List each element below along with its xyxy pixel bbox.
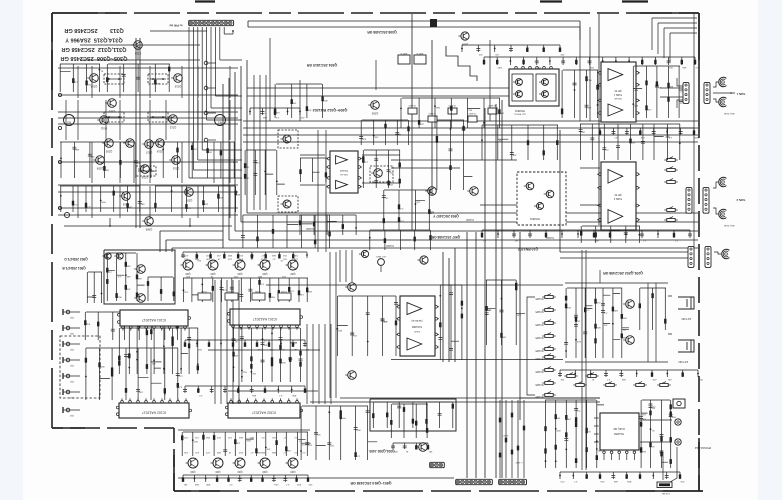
under bar1 comb [128, 367, 130, 369]
transistor Q320 [108, 99, 117, 108]
svg-text:TD62504: TD62504 [529, 217, 540, 220]
connector header to PW board [189, 20, 234, 25]
svg-text:IC201 HA12017: IC201 HA12017 [253, 317, 277, 321]
svg-text:47K: 47K [680, 480, 684, 482]
transistor Q306a [126, 139, 135, 148]
P-SW rect groups [198, 293, 211, 300]
svg-text:L-SW2: L-SW2 [515, 461, 522, 463]
svg-text:PHONO/LINE2: PHONO/LINE2 [694, 446, 711, 449]
svg-text:SWT-8: SWT-8 [400, 52, 407, 54]
mic texture [565, 350, 567, 352]
sheet border left [51, 13, 53, 428]
svg-text:M1: M1 [218, 121, 222, 125]
svg-text:RH 03: RH 03 [614, 193, 621, 196]
switch W-SW5-3 [545, 322, 553, 325]
transistor Q504 [117, 253, 123, 259]
input jack P6-410 [62, 407, 64, 413]
second vertical bundle [254, 60, 376, 252]
switch W-SW10 [660, 384, 668, 387]
svg-text:Q312: Q312 [169, 126, 176, 130]
svg-text:S-GND: S-GND [306, 227, 314, 230]
bottom drops [310, 398, 600, 478]
svg-text:HA12058: HA12058 [613, 432, 624, 435]
svg-text:47K: 47K [195, 451, 199, 453]
svg-text:W-SW6: W-SW6 [535, 395, 544, 398]
svg-text:Q318: Q318 [156, 150, 163, 154]
svg-text:Q311: Q311 [100, 127, 107, 131]
bar bundle 1 [215, 280, 331, 404]
transistor Q317 [145, 140, 154, 149]
svg-text:Q313 2SC2458 GR: Q313 2SC2458 GR [64, 27, 123, 33]
svg-text:B-SW2: B-SW2 [408, 104, 416, 106]
dolby IC [600, 413, 639, 450]
svg-text:10K: 10K [287, 449, 291, 451]
mid-left long verticals [330, 250, 352, 398]
svg-text:RH 03: RH 03 [614, 89, 621, 92]
svg-text:W-SW6: W-SW6 [535, 357, 544, 360]
svg-text:P-SW: P-SW [227, 290, 234, 292]
svg-text:Q308 2SC2458 GR: Q308 2SC2458 GR [367, 30, 397, 34]
svg-text:47K: 47K [652, 378, 656, 380]
svg-text:Q903 2SC2407 Y: Q903 2SC2407 Y [432, 214, 459, 218]
svg-text:Q60: Q60 [290, 272, 295, 276]
jack y254 [714, 252, 721, 254]
svg-text:10K: 10K [184, 451, 188, 453]
transistor Q202 [626, 336, 635, 345]
svg-text:10K: 10K [294, 254, 298, 256]
svg-text:S-GND: S-GND [386, 244, 394, 247]
transistor Q502 [137, 294, 146, 303]
transistor Q609 [260, 458, 270, 468]
transistor Q908 [145, 217, 154, 226]
transistor Q201 [626, 300, 635, 309]
svg-text:W-SW5: W-SW5 [535, 349, 544, 352]
under bar2 comb [233, 366, 235, 368]
right of U-C [632, 103, 634, 105]
transistor Q503 [105, 253, 111, 259]
transistor Q304 [461, 32, 469, 40]
svg-text:47K: 47K [87, 83, 91, 85]
transistor Q903 [428, 187, 437, 196]
svg-text:LPO 3NC1: LPO 3NC1 [375, 255, 386, 257]
page edge artifacts [195, 0, 648, 2]
switch W-SW9 [636, 384, 644, 387]
svg-text:TAPE 2: TAPE 2 [613, 197, 622, 200]
svg-text:10K: 10K [292, 102, 296, 104]
volume ladder [446, 46, 477, 81]
between bars rows [196, 343, 198, 345]
transistor Q601 [183, 260, 193, 270]
svg-text:Q60: Q60 [237, 470, 242, 474]
transistor Q608 [235, 458, 245, 468]
transistor mid t1 [348, 283, 357, 292]
switch W-SW8 [606, 384, 614, 387]
tape1 connectors [683, 82, 689, 103]
svg-text:10K: 10K [105, 168, 109, 170]
terminal circle bottom [64, 212, 69, 217]
svg-text:Q306: Q306 [371, 112, 378, 116]
svg-text:Q907 2SC2458 GR: Q907 2SC2458 GR [431, 235, 460, 239]
left rail pin circles [58, 93, 61, 96]
switch W-SW5-2 [545, 309, 553, 312]
svg-text:805 HB: 805 HB [614, 97, 622, 99]
svg-text:47K: 47K [383, 320, 387, 322]
transistor Q upper mid [420, 256, 428, 264]
switch W-SW6-1 [545, 356, 553, 359]
transistor Q318 [156, 139, 165, 148]
bottom edge connector 1 [456, 479, 493, 484]
svg-text:Q10 RN1202: Q10 RN1202 [518, 247, 538, 251]
top bus blob [430, 19, 437, 27]
switch B-SW2-4 [468, 116, 477, 122]
svg-text:S-GND: S-GND [546, 236, 554, 239]
sheet border notch horizontal [52, 427, 174, 429]
svg-text:W-SW5: W-SW5 [535, 323, 544, 326]
transistor Q602 [208, 260, 218, 270]
transistor Q501 [137, 265, 146, 274]
svg-text:47K: 47K [641, 418, 645, 420]
svg-text:Q60: Q60 [190, 470, 195, 474]
svg-text:B-SW2: B-SW2 [428, 112, 436, 114]
line-out sub box [370, 399, 456, 431]
switch B-SW3 [667, 181, 675, 184]
svg-text:10K: 10K [206, 258, 210, 260]
svg-text:Q315: Q315 [174, 85, 181, 89]
switch W-SW6-4 [545, 394, 553, 397]
tape1 wires [660, 88, 683, 97]
channel divider wires [135, 38, 137, 228]
switch W-SW5-5 [545, 348, 553, 351]
bottom rails [178, 430, 454, 478]
transistor Q305 in dashed box [370, 166, 393, 182]
svg-text:10K: 10K [252, 372, 256, 374]
transistor Q311 [100, 116, 109, 125]
dolby texture [545, 452, 547, 454]
switch B-SW4 [667, 209, 675, 212]
transistor Q312 [169, 115, 178, 124]
marks on bus verticals [499, 413, 525, 458]
svg-text:IC202 HA12017: IC202 HA12017 [252, 411, 276, 415]
input jack P6-376 [62, 373, 64, 379]
switch W-SW5-1 [545, 296, 553, 299]
switch B-SW2 [667, 169, 675, 172]
svg-text:Q304 2SC1815 GR: Q304 2SC1815 GR [306, 63, 337, 67]
svg-text:TD62504: TD62504 [514, 109, 525, 112]
bottom edge connector 2 [499, 479, 527, 484]
mid bus lines with corners [160, 60, 698, 252]
switch B-SW2-5 [488, 108, 497, 114]
jack circle mid [378, 259, 385, 266]
transistor Q315 [174, 74, 183, 83]
svg-text:10K: 10K [560, 378, 564, 380]
transistor Q309 [96, 156, 105, 165]
svg-text:M2: M2 [67, 121, 71, 125]
svg-text:Q305: Q305 [105, 150, 112, 154]
switch W-SW7 [576, 384, 584, 387]
svg-text:P-SW: P-SW [254, 290, 261, 292]
svg-text:W-SW6: W-SW6 [535, 370, 544, 373]
uPC IC U-F [400, 296, 435, 356]
transistor Q6010 [288, 458, 298, 468]
left of Q301 texture [391, 404, 428, 438]
right edge terminal circle M1 [215, 115, 226, 126]
svg-text:10K: 10K [138, 390, 142, 392]
input jack dashed box [60, 336, 100, 398]
U-B to U-C components [574, 89, 576, 91]
svg-text:47K: 47K [362, 138, 366, 140]
svg-text:W-SW5: W-SW5 [535, 310, 544, 313]
svg-text:Q502 2SD471 D: Q502 2SD471 D [64, 257, 88, 261]
svg-text:W-SW5: W-SW5 [535, 297, 544, 300]
svg-text:E06 JH: E06 JH [340, 173, 348, 175]
svg-text:Tonevol: Tonevol [340, 169, 348, 171]
svg-text:10K: 10K [502, 335, 506, 337]
svg-text:Q60: Q60 [262, 470, 267, 474]
sheet border top [52, 12, 698, 14]
svg-text:REC PLAY: REC PLAY [723, 112, 734, 115]
bottom right connector [657, 482, 672, 488]
mid right texture [481, 139, 483, 141]
dip bars [120, 310, 188, 326]
transistor Q307 [185, 188, 194, 197]
dashed IC U-E [517, 172, 566, 225]
dashed transistor Q302b [278, 196, 298, 212]
left dashed dual components [104, 74, 124, 84]
svg-text:IOE31: IOE31 [413, 330, 420, 332]
input jack P6-312 [62, 309, 64, 315]
svg-text:47K: 47K [184, 254, 188, 256]
svg-text:Q501 2SD471 B: Q501 2SD471 B [62, 266, 86, 270]
border corner solids [52, 12, 120, 14]
left of switches texture [439, 295, 441, 297]
svg-text:Q908: Q908 [145, 228, 152, 232]
svg-text:Q309~Q312 RN1202: Q309~Q312 RN1202 [313, 108, 348, 112]
svg-text:TAPE 2: TAPE 2 [736, 198, 745, 202]
svg-text:10K: 10K [556, 417, 560, 419]
left-bottom texture [124, 317, 126, 319]
input jack P6-328 [62, 325, 64, 331]
mid texture right of Q903 [450, 128, 452, 130]
transistor small x365 [361, 250, 368, 257]
transistor Q603 [235, 260, 245, 270]
svg-text:Q309: Q309 [96, 167, 103, 171]
switch B-SW2-3 [448, 108, 457, 114]
input jack P6-344 [62, 341, 64, 347]
connector blocks y250 [688, 246, 694, 267]
svg-text:2-W-NS: 2-W-NS [662, 492, 670, 494]
transistor Q306 [371, 101, 380, 110]
svg-text:47K: 47K [631, 141, 635, 143]
transistor Q607 [213, 458, 223, 468]
input jack P6-392 [62, 389, 64, 395]
mic rails [391, 250, 668, 470]
svg-text:TAPE 1: TAPE 1 [613, 93, 622, 96]
switch W-SW6-2 [545, 369, 553, 372]
svg-text:IC102 HA12017: IC102 HA12017 [142, 411, 166, 415]
svg-text:IC101 HA12017: IC101 HA12017 [142, 318, 166, 322]
svg-text:Q311,Q312 2SC2458 GR: Q311,Q312 2SC2458 GR [62, 46, 127, 52]
switch W-SW5-4 [545, 335, 553, 338]
switch B-SW5 [667, 219, 675, 222]
tone left texture [264, 171, 266, 173]
transistor Q319 [122, 192, 131, 201]
svg-text:47K: 47K [300, 116, 304, 118]
transistor Q305 [105, 139, 114, 148]
svg-text:Q601~Q610 2SC2458 GR: Q601~Q610 2SC2458 GR [350, 481, 391, 485]
transistor Q316 [141, 165, 150, 174]
bottom row texture [192, 439, 194, 441]
svg-text:10K: 10K [374, 136, 378, 138]
svg-text:SW2-1: SW2-1 [501, 434, 508, 436]
svg-text:REC PLAY: REC PLAY [723, 224, 734, 227]
svg-text:Q314,Q315 2SA966 Y: Q314,Q315 2SA966 Y [65, 36, 123, 42]
mid rails bottom-left [208, 350, 320, 391]
svg-text:Q11 E09.01: Q11 E09.01 [513, 112, 525, 114]
IC U-B quad [509, 69, 559, 106]
phono texture [116, 293, 118, 295]
svg-text:P-SW: P-SW [200, 290, 207, 292]
phono sub-box [104, 250, 175, 304]
svg-text:10K: 10K [128, 206, 132, 208]
right terminal circles column [204, 61, 208, 65]
transistor Q606 [188, 458, 198, 468]
transistor Q313 wires [137, 45, 139, 60]
svg-text:W-SW5: W-SW5 [535, 336, 544, 339]
upper mid rails [243, 27, 698, 142]
upper mid gap texture [275, 84, 323, 118]
tone IC U-A [330, 151, 358, 193]
transistor Q907 [470, 187, 479, 196]
svg-text:SWT-8: SWT-8 [416, 52, 423, 54]
svg-text:47K: 47K [186, 275, 190, 277]
switch B-SW2-1 [408, 108, 417, 114]
left edge terminal circle M2 [64, 115, 75, 126]
transistor Q301 [419, 443, 428, 452]
switch W-SW6-3 [545, 382, 553, 385]
bottom mid texture [300, 450, 302, 452]
svg-text:Q201,Q202 2SC2458 GR: Q201,Q202 2SC2458 GR [603, 271, 643, 275]
mic right wires [600, 270, 672, 362]
svg-text:EXT MIC: EXT MIC [681, 317, 691, 320]
IC U-D opamps [601, 162, 636, 230]
IC U-C opamps [601, 62, 636, 122]
bottom right rails [520, 398, 672, 442]
svg-text:B-SW2: B-SW2 [468, 112, 476, 114]
dashed transistor Q302a [278, 130, 298, 148]
left section rail mesh [58, 60, 238, 218]
sheet border right [698, 13, 700, 112]
svg-text:Q60: Q60 [290, 470, 295, 474]
svg-text:P-SW: P-SW [280, 290, 287, 292]
transistor Q310 [172, 156, 181, 165]
mid texture [337, 328, 339, 330]
svg-text:10K: 10K [567, 417, 571, 419]
top bus pair [248, 14, 580, 230]
svg-text:Q301,Q302 J403: Q301,Q302 J403 [369, 449, 394, 453]
svg-text:Dolby NR: Dolby NR [613, 427, 624, 431]
transistor Q314 [90, 74, 99, 83]
svg-text:EXT MIC: EXT MIC [678, 360, 688, 363]
svg-text:TAPE 1: TAPE 1 [736, 92, 745, 96]
tone right texture [373, 135, 375, 137]
3pin connector [430, 462, 445, 467]
switch B-SW2-2 [428, 116, 437, 122]
svg-text:S-GND: S-GND [466, 218, 474, 221]
svg-text:W-SW6: W-SW6 [535, 383, 544, 386]
svg-text:TA4426M: TA4426M [412, 325, 422, 328]
svg-text:to PW bd: to PW bd [169, 24, 182, 28]
transistor Q313 [134, 41, 143, 50]
transistor Q604 [260, 260, 270, 270]
svg-text:(/tw-bw wt): (/tw-bw wt) [411, 319, 422, 322]
phono line jacks [673, 399, 685, 408]
switch feed wires [527, 297, 535, 395]
svg-text:47K: 47K [239, 258, 243, 260]
svg-text:47K: 47K [234, 354, 238, 356]
sheet border bottom [174, 490, 703, 492]
tape2 area rails [391, 14, 694, 248]
right bus pair to connector [443, 14, 694, 478]
SWT rects y55 [398, 55, 410, 64]
ext mic jacks [678, 297, 694, 309]
svg-text:B-SW2: B-SW2 [488, 104, 496, 106]
svg-text:Q60: Q60 [215, 470, 220, 474]
svg-text:Q320: Q320 [108, 110, 115, 114]
U-A wires [300, 155, 400, 185]
tape2 jack bends [713, 182, 718, 188]
top right nested corners [652, 18, 697, 62]
switch B-SW1 [667, 159, 675, 162]
svg-text:47K: 47K [667, 378, 671, 380]
transistor mid t2 [348, 371, 357, 380]
svg-text:47K: 47K [389, 171, 393, 173]
tape2 jacks [719, 177, 727, 186]
bottom right corner solid border [626, 490, 703, 492]
switch row mid [567, 375, 575, 378]
svg-text:47K: 47K [512, 154, 516, 156]
tape2 connectors [686, 187, 692, 213]
tape1 jacks [719, 77, 727, 86]
svg-text:Q310: Q310 [172, 167, 179, 171]
input jack P6-360 [62, 357, 64, 363]
left section texture [99, 69, 101, 71]
sheet border notch vertical [173, 428, 175, 491]
header drop wires [150, 27, 242, 178]
svg-text:10K: 10K [257, 451, 261, 453]
transistor Q605 [288, 260, 298, 270]
